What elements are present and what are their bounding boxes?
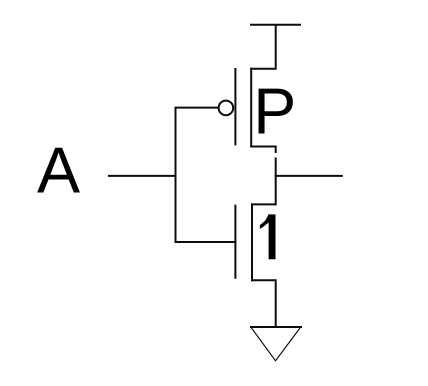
wire VDD stem xyxy=(275,24,277,70)
NMOS drain pin (to output) xyxy=(251,203,276,205)
ground symbol top bar xyxy=(250,326,302,328)
PMOS source pin (to VDD) xyxy=(250,68,276,70)
NMOS gate plate xyxy=(234,205,236,279)
PMOS gate plate xyxy=(234,68,236,145)
ground xyxy=(250,327,302,361)
label 1 (NMOS name) xyxy=(260,214,276,259)
svg-text:A: A xyxy=(37,135,80,207)
PMOS drain stub xyxy=(275,146,277,154)
power VDD xyxy=(250,24,301,70)
PMOS drain pin xyxy=(250,146,276,148)
wire ground stem xyxy=(275,279,277,327)
wire output xyxy=(275,175,343,177)
wire NMOS gate xyxy=(175,241,237,243)
PMOS inversion bubble xyxy=(219,101,234,116)
ground symbol triangle xyxy=(252,328,301,361)
wire input A xyxy=(108,175,177,177)
NMOS source pin (to ground) xyxy=(251,279,276,281)
transistor P (PMOS) xyxy=(219,68,276,153)
transistor 1 (NMOS) xyxy=(235,203,275,281)
wire PMOS gate xyxy=(176,107,218,109)
VDD rail bar xyxy=(250,24,301,26)
PMOS channel bar xyxy=(250,68,252,148)
svg-text:P: P xyxy=(253,75,296,147)
NMOS channel bar xyxy=(251,203,253,281)
wire input stem (gate bus) xyxy=(175,107,177,243)
wire output node vertical xyxy=(275,158,277,206)
